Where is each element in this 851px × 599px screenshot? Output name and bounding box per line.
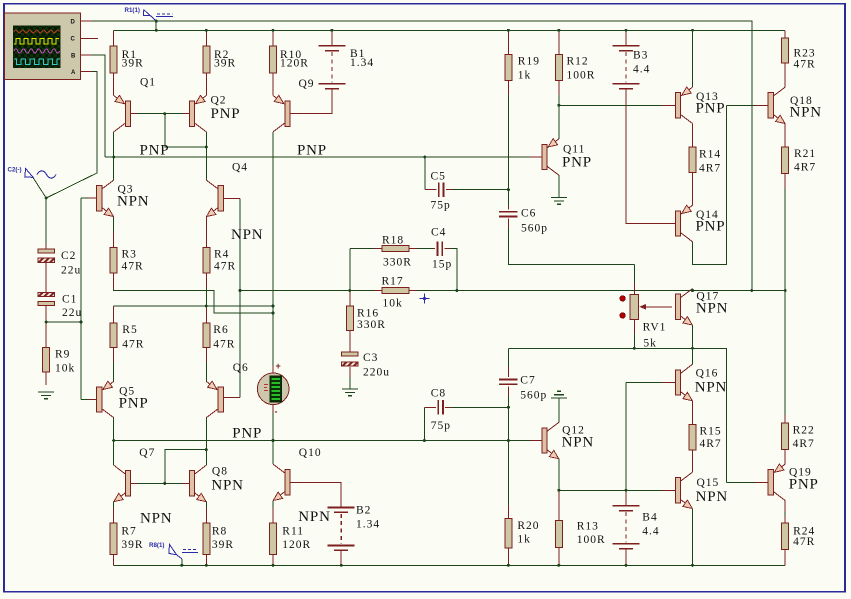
wire mid battery minus to lower rail and Q10 collector (272, 405, 274, 412)
ground at Q12 collector (551, 391, 567, 398)
wire mid rail to Q11 base (105, 156, 530, 158)
svg-text:47R: 47R (793, 536, 815, 548)
transistor Q13 (676, 87, 693, 124)
svg-text:39R: 39R (212, 539, 234, 551)
wire ground return rail (114, 564, 786, 566)
wire R20 to ground rail (507, 548, 509, 565)
wire R11 to ground rail (272, 554, 274, 565)
svg-text:1k: 1k (517, 534, 531, 546)
svg-text:B3: B3 (633, 50, 648, 62)
svg-text:330R: 330R (383, 257, 412, 269)
svg-text:R22: R22 (793, 425, 815, 437)
wire scope pin B to mid rail (80, 54, 92, 56)
wire R7 to ground rail (113, 554, 115, 565)
svg-text:R18: R18 (382, 234, 404, 246)
resistor R23 (782, 38, 816, 70)
svg-text:330R: 330R (357, 319, 386, 331)
wire RV1 bottom to output rail (633, 320, 635, 334)
svg-text:A: A (71, 70, 76, 76)
svg-text:10k: 10k (383, 298, 403, 310)
wire R4 bottom to R6 top column (205, 288, 207, 306)
wire R13 column (558, 490, 560, 520)
transistor Q14 (676, 205, 693, 242)
transistor Q16 (676, 364, 693, 400)
transistor Q6 (206, 381, 223, 418)
resistor R24 (782, 523, 816, 550)
wire R5 R6 tops line (114, 305, 273, 307)
svg-text:22u: 22u (62, 307, 82, 319)
wire R24 to ground rail (784, 550, 786, 566)
battery B3 (613, 30, 651, 88)
resistor R13 (555, 521, 605, 548)
transistor Q18 (768, 87, 785, 123)
svg-text:B2: B2 (356, 505, 371, 517)
transistor Q15 (676, 472, 693, 508)
wire Q11 emitter up to base node (558, 105, 560, 139)
ground below C3 (342, 389, 358, 396)
svg-text:B: B (71, 54, 76, 60)
svg-text:Q15: Q15 (697, 477, 720, 489)
probe R8(1) (149, 542, 198, 559)
svg-text:NPN: NPN (140, 511, 172, 527)
wire top mirror base link (136, 113, 184, 115)
svg-text:R17: R17 (382, 276, 404, 288)
wire Q3 Q5 common base line (80, 198, 82, 400)
svg-text:B4: B4 (642, 512, 657, 524)
wire R21 down output column to R22 (784, 173, 786, 188)
wire Q16 collector to output rail (692, 348, 694, 364)
svg-text:R9: R9 (55, 349, 70, 361)
svg-text:560p: 560p (520, 390, 547, 402)
wire Q14 collector to Q18 base column (692, 242, 694, 248)
wire Q13 collector to R14 to Q14 emitter (692, 124, 694, 148)
resistor R7 (110, 523, 143, 555)
svg-text:NPN: NPN (298, 509, 330, 525)
oscilloscope (5, 13, 81, 80)
wire Q8 emitter to R8 (205, 502, 207, 508)
wire C5 left to mid rail (424, 157, 426, 190)
svg-text:4R7: 4R7 (793, 438, 815, 450)
transistor Q9 (273, 95, 290, 132)
svg-text:4R7: 4R7 (700, 438, 722, 450)
svg-text:1k: 1k (518, 70, 532, 82)
transistor Q17 (676, 289, 693, 325)
transistor Q10 (273, 464, 290, 500)
svg-text:Q6: Q6 (233, 362, 249, 374)
wire bias node to B4 (625, 490, 627, 506)
wire C5 right to R19 column (446, 189, 452, 191)
transistor Q11 (542, 139, 559, 176)
svg-text:4R7: 4R7 (794, 162, 816, 174)
svg-text:PNP: PNP (119, 396, 149, 412)
svg-text:4.4: 4.4 (642, 526, 659, 538)
svg-text:100R: 100R (567, 70, 596, 82)
svg-text:39R: 39R (121, 539, 143, 551)
svg-text:NPN: NPN (211, 478, 243, 494)
wire Q15 base line (559, 489, 662, 491)
resistor R5 (110, 323, 144, 350)
svg-text:22u: 22u (61, 265, 81, 277)
svg-text:220u: 220u (363, 367, 390, 379)
wire Q1 collector to Q3 collector (113, 132, 115, 180)
wire C3 to ground (349, 367, 351, 377)
svg-text:1.34: 1.34 (350, 57, 374, 69)
svg-text:R4: R4 (214, 249, 229, 261)
wire Q12 emitter to node (558, 459, 560, 491)
wire Q5 emitter to R5 (113, 362, 115, 381)
svg-text:NPN: NPN (696, 301, 728, 317)
svg-text:47R: 47R (122, 261, 144, 273)
wire Q16 base from bias column (626, 382, 662, 384)
svg-text:1.34: 1.34 (356, 519, 380, 531)
wire Q7 emitter to R7 (113, 502, 115, 508)
capacitor C2 (38, 249, 81, 277)
resistor R4 (203, 217, 236, 289)
svg-text:C6: C6 (521, 208, 536, 220)
svg-text:PNP: PNP (789, 477, 819, 493)
svg-text:R11: R11 (282, 526, 304, 538)
svg-text:Q7: Q7 (139, 447, 155, 459)
svg-text:C7: C7 (520, 375, 535, 387)
svg-text:R6: R6 (213, 324, 228, 336)
resistor R3 (110, 232, 143, 290)
svg-text:NPN: NPN (117, 194, 149, 210)
svg-text:C1: C1 (62, 294, 77, 306)
resistor R14 (689, 147, 721, 174)
svg-text:PNP: PNP (232, 426, 262, 442)
transistor Q1 (114, 95, 131, 132)
svg-text:560p: 560p (521, 223, 548, 235)
capacitor C8 (431, 387, 451, 432)
svg-text:PNP: PNP (297, 143, 327, 159)
wire bottom mirror base link (136, 482, 184, 484)
wire C4 right to feedback rail (445, 248, 450, 250)
wire Q17 emitter to output rail (692, 325, 694, 348)
wire C6 bottom to RV1 top (507, 219, 509, 228)
resistor R10 (270, 30, 309, 95)
wire C7 column to R20 (507, 441, 509, 506)
svg-text:PNP: PNP (696, 219, 726, 235)
wire R3 bottom jog to mid supply node (114, 289, 273, 313)
wire B2 to ground rail (340, 550, 342, 565)
svg-text:Q16: Q16 (696, 368, 719, 380)
svg-text:R13: R13 (577, 521, 599, 533)
svg-text:5k: 5k (643, 338, 657, 350)
svg-text:R21: R21 (794, 148, 816, 160)
wire scope pin D stub (80, 20, 92, 22)
svg-text:PNP: PNP (696, 101, 726, 117)
capacitor C1 (38, 293, 82, 320)
svg-text:47R: 47R (794, 59, 816, 71)
wire C8 left to lower rail (423, 407, 425, 440)
svg-text:C2: C2 (61, 250, 76, 262)
potentiometer RV1 (620, 295, 672, 350)
wire C8 right to C7 column (445, 406, 451, 408)
wire R18 to C4 (409, 248, 417, 250)
svg-text:4R7: 4R7 (699, 163, 721, 175)
svg-text:PNP: PNP (211, 106, 241, 122)
svg-text:75p: 75p (431, 420, 451, 432)
ground below R9 (38, 392, 54, 399)
wire Q11 collector to ground (558, 175, 560, 197)
wire Q4 base Q6 base column (223, 197, 240, 199)
transistor Q7 (114, 465, 131, 501)
wire Q15 emitter to ground rail (692, 509, 694, 566)
resistor R8 (203, 523, 234, 555)
svg-text:R12: R12 (567, 56, 589, 68)
svg-text:15p: 15p (432, 259, 452, 271)
resistor R1 (110, 30, 144, 95)
wire positive supply rail (114, 29, 786, 31)
resistor R17 (374, 276, 417, 310)
wire Q16 emitter to R15 to Q15 collector (692, 401, 694, 425)
wire R12 down to node (558, 81, 560, 95)
capacitor C4 (431, 227, 452, 271)
wire Q7 collector to lower rail (113, 441, 115, 466)
svg-text:4.4: 4.4 (633, 64, 650, 76)
origin marker cross (420, 294, 430, 304)
wire Q5 collector to lower rail (113, 418, 115, 441)
svg-text:C4: C4 (431, 227, 446, 239)
transistor Q8 (189, 465, 206, 501)
svg-text:R16: R16 (357, 308, 379, 320)
wire R23 to Q18 collector (784, 30, 786, 38)
svg-text:47R: 47R (122, 338, 144, 350)
resistor R9 (43, 348, 76, 386)
svg-text:R14: R14 (699, 149, 721, 161)
svg-text:39R: 39R (214, 57, 236, 69)
battery B1 (318, 30, 374, 88)
battery B4 (613, 506, 660, 549)
wire C7 column (507, 348, 509, 367)
resistor R18 (382, 234, 412, 268)
svg-text:RV1: RV1 (643, 322, 667, 334)
svg-text:R7: R7 (121, 526, 136, 538)
svg-text:Q4: Q4 (232, 162, 248, 174)
svg-text:R5: R5 (122, 324, 137, 336)
resistor R11 (270, 523, 312, 555)
wire bottom probe tick (181, 559, 183, 566)
resistor R16 (346, 306, 386, 331)
svg-text:R15: R15 (700, 426, 722, 438)
svg-text:NPN: NPN (231, 227, 263, 243)
wire R16 to C3 (349, 330, 351, 352)
resistor R15 (689, 425, 722, 451)
svg-text:Q10: Q10 (299, 447, 322, 459)
transistor Q3 (97, 180, 114, 216)
svg-text:75p: 75p (431, 200, 451, 212)
svg-text:R1(1): R1(1) (125, 7, 140, 14)
svg-text:R8(1): R8(1) (149, 542, 164, 549)
svg-text:R20: R20 (517, 520, 539, 532)
capacitor C6 (499, 208, 548, 235)
wire Q19 collector to R24 (784, 501, 786, 513)
wire Q6 emitter to R6 (205, 362, 207, 381)
transistor Q4 (206, 180, 223, 216)
resistor R2 (203, 30, 236, 95)
wire R8 to ground rail (205, 554, 207, 565)
resistor R20 (505, 518, 540, 548)
svg-text:+: + (276, 361, 281, 371)
wire R19 down to C6 (507, 81, 509, 95)
svg-text:R3: R3 (122, 249, 137, 261)
wire Q13 emitter to supply rail (692, 30, 694, 87)
svg-text:PNP: PNP (140, 143, 170, 159)
wire B3 down to Q14 base (626, 89, 676, 224)
wire C2 to C1 (45, 262, 47, 292)
wire Q10 base to B2 (290, 482, 341, 507)
svg-text:Q8: Q8 (212, 466, 228, 478)
capacitor C3 (342, 352, 391, 379)
svg-text:10k: 10k (55, 363, 75, 375)
wire tap junction to base line (46, 321, 81, 323)
transistor Q19 (768, 464, 785, 501)
svg-text:NPN: NPN (695, 380, 727, 396)
capacitor C5 (431, 171, 451, 212)
svg-text:C: C (71, 37, 76, 43)
ground at Q11 collector (551, 198, 567, 205)
transistor Q12 (542, 422, 559, 458)
wire R22 to Q19 emitter (784, 450, 786, 464)
resistor R6 (203, 323, 236, 350)
svg-text:47R: 47R (214, 261, 236, 273)
svg-text:NPN: NPN (790, 105, 822, 121)
svg-text:C3: C3 (363, 352, 378, 364)
battery BAT1 mid supply (257, 361, 289, 417)
wire Q2 collector to Q4 collector (205, 132, 207, 180)
wire scope pin C stub (80, 37, 97, 39)
wire output rail C7 to Q19 base (508, 348, 726, 482)
wire Q12 collector to ground (558, 399, 560, 423)
wire C1 to tap junction and R9 (45, 306, 47, 322)
wire probe tick joining rails (155, 21, 157, 30)
svg-text:Q1: Q1 (140, 77, 156, 89)
svg-text:Q2: Q2 (211, 95, 227, 107)
svg-text:D: D (71, 20, 76, 26)
probe R1(1) (125, 7, 174, 21)
svg-text:C5: C5 (431, 171, 446, 183)
svg-text:R8: R8 (212, 526, 227, 538)
transistor Q5 (97, 381, 114, 418)
wire R18 left to feedback node and R16 (349, 249, 351, 291)
wire B4 to ground rail (625, 549, 627, 566)
resistor R21 (782, 147, 816, 173)
wire Q18 emitter to R21 (784, 124, 786, 148)
svg-text:120R: 120R (282, 539, 311, 551)
svg-text:NPN: NPN (696, 489, 728, 505)
svg-text:NPN: NPN (562, 435, 594, 451)
svg-text:C2(-): C2(-) (8, 167, 22, 174)
svg-text:C8: C8 (431, 387, 446, 399)
svg-text:R19: R19 (518, 56, 540, 68)
transistor Q2 (189, 95, 206, 132)
wire Q9 collector to mid battery (272, 132, 274, 366)
wire Q17 collector stub (692, 289, 694, 291)
wire Q6 collector to Q8 collector (205, 418, 207, 466)
wire node to Q13 base (559, 104, 662, 106)
svg-text:Q9: Q9 (299, 78, 315, 90)
wire Q10 emitter to R11 (272, 501, 274, 509)
wire Q3 emitter to R3 (113, 217, 115, 232)
wire lower collector rail to Q12 base (114, 440, 530, 442)
wire scope pin A to generator junction (80, 71, 92, 73)
resistor R12 (555, 30, 595, 81)
wire feedback rail (240, 290, 374, 292)
svg-text:39R: 39R (122, 57, 144, 69)
svg-text:47R: 47R (213, 338, 235, 350)
wire Q9 base to B1 (290, 89, 332, 114)
svg-text:-: - (275, 407, 278, 417)
resistor R19 (505, 30, 540, 81)
wire input node down to C2 (45, 198, 47, 244)
svg-text:PNP: PNP (562, 155, 592, 171)
svg-text:120R: 120R (280, 57, 309, 69)
resistor R22 (782, 423, 815, 450)
generator C2(-) (8, 167, 57, 179)
battery B2 (328, 505, 380, 551)
capacitor C7 (499, 375, 547, 402)
wire generator to input node (33, 178, 46, 199)
wire top rail D net from scope to right side down to feedback rail (80, 21, 751, 290)
svg-text:100R: 100R (577, 534, 606, 546)
